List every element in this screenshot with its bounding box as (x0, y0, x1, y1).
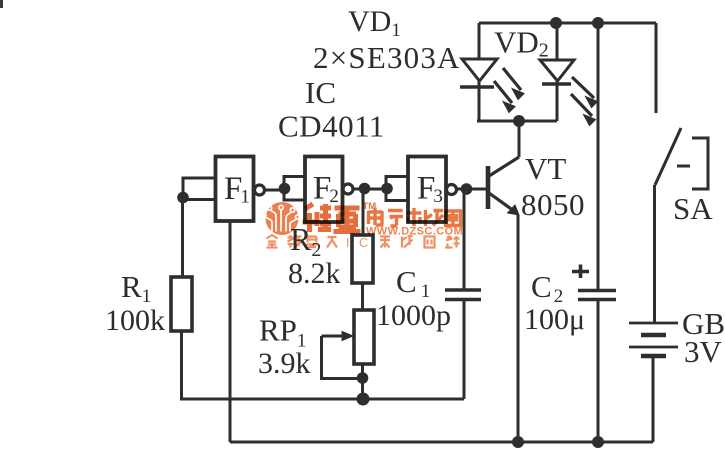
gate F1 (216, 157, 265, 222)
watermark slogan (267, 235, 460, 248)
svg-text:CD4011: CD4011 (278, 109, 385, 144)
capacitor C2 (572, 23, 616, 442)
svg-text:C: C (359, 236, 368, 250)
resistor R2 (352, 189, 373, 310)
wire LED box bottom (477, 120, 557, 123)
junction dot collector node (513, 115, 525, 127)
svg-text:RP1: RP1 (259, 313, 306, 352)
wire F2 output (353, 188, 386, 191)
junction dot top rail C2 (592, 17, 604, 29)
wire SA to battery (653, 185, 656, 323)
junction dot F2 input (279, 183, 291, 195)
wire F1 bottom to ground rail (229, 221, 232, 442)
svg-text:100μ: 100μ (524, 303, 585, 336)
transistor VT (488, 121, 519, 442)
svg-text:1000p: 1000p (376, 299, 451, 332)
watermark text dianzishichangwang (369, 208, 461, 227)
junction dot C2 ground (592, 436, 604, 448)
wire top supply rail (479, 22, 656, 25)
junction dot F3 input (381, 183, 393, 195)
svg-text:VD2: VD2 (494, 25, 549, 62)
junction dot RC node (357, 393, 370, 406)
watermark text weiku (303, 204, 361, 232)
gate F3 (408, 157, 457, 223)
potentiometer RP1 (322, 310, 375, 399)
LED VD2 (540, 23, 574, 121)
resistor R1 (171, 277, 192, 331)
wire F1 output (265, 189, 285, 192)
svg-text:C1: C1 (396, 264, 430, 302)
battery GB (629, 323, 678, 356)
svg-text:IC: IC (305, 75, 336, 110)
wire F3 input bracket (386, 177, 408, 201)
logo circle (262, 202, 300, 235)
switch SA (655, 128, 708, 189)
capacitor C1 (445, 189, 481, 399)
svg-text:3V: 3V (684, 334, 723, 369)
junction dot R2 node (359, 183, 371, 195)
gate F2 (305, 157, 353, 223)
VD1 emission arrows (494, 68, 524, 113)
wire F1 input to R1 (181, 197, 184, 277)
svg-text:VT: VT (525, 151, 566, 186)
svg-text:C2: C2 (531, 269, 563, 307)
junction dot C1 node (461, 183, 473, 195)
watermark dzsc.com (262, 201, 463, 250)
svg-text:8050: 8050 (521, 187, 585, 222)
svg-text:100k: 100k (105, 304, 165, 337)
svg-text:2×SE303A: 2×SE303A (313, 40, 461, 75)
svg-text:SA: SA (673, 191, 713, 226)
svg-text:3.9k: 3.9k (258, 347, 311, 380)
wire F3 output to base (457, 188, 487, 191)
wire R1 to RC node (182, 331, 465, 399)
scan artifact top-left corner (0, 0, 3, 8)
wire F1 input bracket (183, 178, 215, 200)
wire battery to bottom rail (652, 356, 655, 442)
LED VD1 (460, 23, 497, 121)
svg-text:I: I (346, 236, 349, 250)
wire bottom ground rail (230, 441, 653, 444)
junction dot RP1 wiper tie (357, 372, 369, 384)
wire F2 input bracket (284, 177, 305, 201)
junction dot LED box top VD2 (550, 17, 562, 29)
VD2 emission arrows (571, 77, 598, 126)
svg-text:VD1: VD1 (348, 5, 401, 41)
wire right rail top (to switch SA) (655, 23, 658, 113)
svg-text:R1: R1 (121, 269, 151, 307)
svg-text:8.2k: 8.2k (288, 257, 341, 290)
junction dot F1 input (177, 192, 189, 204)
junction dot emitter ground (512, 436, 524, 448)
